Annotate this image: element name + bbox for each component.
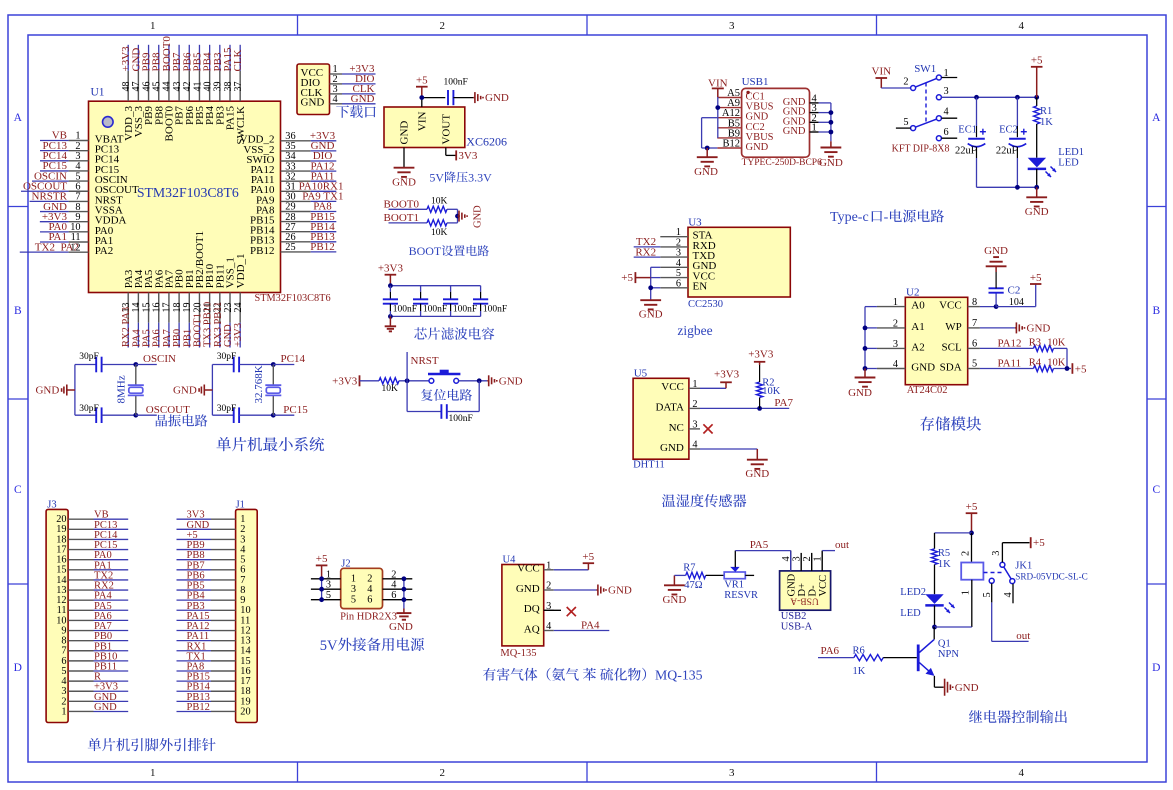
svg-text:zigbee: zigbee bbox=[677, 323, 712, 338]
net TX2 wire (U3) bbox=[634, 246, 661, 248]
U1 pin 44 (BOOT0) top stub + wire + net BOOT0 bbox=[168, 71, 170, 102]
potentiometer VR1 RESVR bbox=[724, 572, 745, 579]
U4 pin 2 (GND) bbox=[544, 589, 554, 591]
svg-text:4: 4 bbox=[1019, 767, 1025, 779]
svg-text:2: 2 bbox=[546, 581, 551, 592]
U1 pin 20 (PB2/BOOT1) bottom stub + wire + net BOOT1 bbox=[198, 293, 200, 323]
svg-text:CC2530: CC2530 bbox=[688, 299, 723, 310]
svg-text:8MHz: 8MHz bbox=[116, 375, 128, 403]
U4 pin 4 (AQ) bbox=[544, 630, 554, 632]
svg-text:VIN: VIN bbox=[872, 65, 892, 77]
svg-text:6: 6 bbox=[367, 595, 372, 606]
svg-text:100nF: 100nF bbox=[423, 305, 447, 315]
capacitor 30pF top (32.768K) bbox=[212, 364, 233, 366]
svg-text:3: 3 bbox=[893, 339, 898, 350]
svg-text:5V: 5V bbox=[429, 171, 444, 185]
U1 pin 42 (PB6) top stub + wire + net PB6 bbox=[188, 71, 190, 102]
svg-text:100nF: 100nF bbox=[449, 414, 473, 424]
U1 pin 21 (PB10) bottom stub + wire + net TX3 PB10 bbox=[209, 293, 211, 323]
svg-text:R1: R1 bbox=[1040, 106, 1052, 117]
capacitor C2 104 bbox=[995, 293, 997, 307]
USB1 pin B5 (CC2) bbox=[717, 127, 741, 129]
svg-text:3: 3 bbox=[791, 556, 802, 561]
svg-text:1: 1 bbox=[150, 20, 156, 32]
U5 pin 4 (GND) bbox=[689, 448, 700, 450]
svg-text:4: 4 bbox=[333, 94, 338, 105]
USB2 pin 1 (VCC) bbox=[821, 551, 823, 571]
svg-text:NPN: NPN bbox=[938, 649, 959, 660]
svg-text:30pF: 30pF bbox=[217, 404, 237, 414]
svg-text:+5: +5 bbox=[966, 501, 978, 513]
SW1 blade 5-4 bbox=[915, 119, 936, 127]
connector J1 body bbox=[236, 509, 258, 722]
resistor 10K (BOOT1) bbox=[427, 220, 447, 226]
U1 pin 24 (VDD_1) bottom stub + wire + net +3V3 bbox=[239, 293, 241, 323]
svg-text:PA12: PA12 bbox=[998, 337, 1022, 349]
svg-text:GND: GND bbox=[639, 309, 663, 321]
net PC14 wire bbox=[273, 364, 294, 366]
svg-text:A1: A1 bbox=[911, 321, 924, 333]
USB1 pin 2 (GND right) bbox=[810, 121, 819, 123]
U4 DQ no-connect X bbox=[544, 609, 561, 611]
svg-text:AT24C02: AT24C02 bbox=[907, 385, 948, 396]
svg-text:R3: R3 bbox=[1029, 337, 1041, 348]
U1 pin 1 (VBAT) left wire + net VB bbox=[40, 140, 69, 142]
USB1 pin 4 (GND right) bbox=[810, 102, 819, 104]
caption crystal circuit bbox=[156, 414, 168, 426]
net RX2 wire (U3) bbox=[634, 256, 661, 258]
USB1 pin A5 (CC1) bbox=[717, 97, 741, 99]
USB1 pin A12 (GND) bbox=[717, 117, 741, 119]
capacitor 30pF top (8MHz) bbox=[75, 364, 96, 366]
svg-text:24: 24 bbox=[233, 303, 244, 313]
svg-text:1: 1 bbox=[812, 123, 817, 134]
caption MCU minimal system bbox=[216, 437, 231, 451]
svg-text:1: 1 bbox=[812, 556, 823, 561]
U1 pin 17 (PA7) bottom stub + wire + net PA7 bbox=[168, 293, 170, 323]
USB2 pin 4 (GND) bbox=[790, 551, 792, 571]
SW1 pin1 stub bbox=[941, 77, 957, 79]
U1 pin 6 (OSCOUT) left wire + net OSCOUT bbox=[21, 190, 69, 192]
svg-text:LED2: LED2 bbox=[900, 587, 926, 598]
U4 VCC to +5 bbox=[554, 569, 589, 571]
svg-text:10K: 10K bbox=[1047, 358, 1066, 369]
svg-text:22uF: 22uF bbox=[996, 145, 1018, 156]
svg-text:GND: GND bbox=[389, 621, 413, 633]
wire coil bottom to collector node bbox=[935, 626, 972, 628]
U1 pin 4 (PC15) left wire + net PC15 bbox=[40, 170, 69, 172]
svg-text:GND: GND bbox=[1027, 323, 1051, 335]
svg-text:+5: +5 bbox=[1033, 537, 1045, 549]
svg-text:+3V3: +3V3 bbox=[378, 263, 404, 275]
svg-text:KFT DIP-8X8: KFT DIP-8X8 bbox=[892, 143, 950, 154]
svg-text:5: 5 bbox=[972, 359, 977, 370]
reset bottom loop with cap bbox=[406, 381, 408, 412]
wire VIN to SW1 pin2 bbox=[881, 87, 910, 89]
svg-text:GND: GND bbox=[787, 573, 798, 596]
resistor 10K (reset pullup) bbox=[379, 378, 399, 384]
svg-text:out: out bbox=[1016, 630, 1030, 642]
svg-text:100nF: 100nF bbox=[393, 305, 417, 315]
svg-text:3: 3 bbox=[729, 767, 735, 779]
U1 pin 14 (PA4) bottom stub + wire + net PA4 bbox=[137, 293, 139, 323]
USB1 pin B12 (GND) bbox=[717, 147, 741, 149]
svg-text:+5: +5 bbox=[1030, 272, 1042, 284]
U1 pin 10 (PA0) left wire + net PA0 bbox=[40, 231, 69, 233]
svg-text:2: 2 bbox=[960, 551, 971, 556]
net PA6 + resistor R6 1K base drive bbox=[818, 657, 854, 659]
svg-text:3V3: 3V3 bbox=[458, 150, 477, 162]
U5 pin 1 (VCC) bbox=[689, 387, 700, 389]
U2 pin 5 SDA + PA11 + R4 bbox=[968, 368, 980, 370]
svg-text:J1: J1 bbox=[236, 499, 245, 510]
svg-text:SCL: SCL bbox=[942, 341, 962, 353]
U2 address pins gnd bus bbox=[864, 307, 866, 369]
svg-text:PB12: PB12 bbox=[187, 702, 210, 713]
wire +5 bus (J2 odd pins) bbox=[321, 579, 323, 600]
relay JK1 blade 3-4 bbox=[1004, 567, 1011, 579]
filter caps bottom rail bbox=[390, 315, 480, 317]
capacitor 100nF #3 bbox=[450, 286, 452, 292]
svg-text:PA7: PA7 bbox=[774, 397, 793, 409]
svg-text:3: 3 bbox=[944, 86, 949, 97]
svg-text:RESVR: RESVR bbox=[724, 590, 758, 601]
svg-text:5: 5 bbox=[982, 592, 993, 597]
svg-text:PB12: PB12 bbox=[310, 241, 334, 253]
earth ground up (C2) bbox=[995, 266, 997, 272]
svg-text:4: 4 bbox=[367, 584, 372, 595]
ic U1 STM32F103C8T6 body bbox=[89, 101, 281, 292]
net label NRST + wire bbox=[406, 352, 408, 381]
U3 EN pin wire bbox=[651, 287, 661, 289]
svg-text:R6: R6 bbox=[853, 645, 865, 656]
U1 pin 5 (OSCIN) left wire + net OSCIN bbox=[32, 180, 69, 182]
wire GND bus (J2 even pins) bbox=[403, 579, 405, 609]
U1 pin 31 (PA10) right wire + net PA10RX1 bbox=[281, 190, 311, 192]
U5 NC pin no-connect X bbox=[703, 424, 712, 433]
power GND left (8MHz) bbox=[67, 389, 75, 391]
earth ground (R7) bbox=[673, 575, 675, 585]
U1 pin 39 (PB3) top stub + wire + net PB3 bbox=[219, 71, 221, 102]
svg-text:4: 4 bbox=[692, 440, 697, 451]
svg-text:USB-A: USB-A bbox=[790, 596, 819, 606]
svg-text:R7: R7 bbox=[683, 562, 695, 573]
U2 pin 1 (A0) bbox=[877, 306, 905, 308]
U1 pin 8 (VSSA) left wire + net GND bbox=[40, 211, 69, 213]
svg-text:MQ-135: MQ-135 bbox=[655, 668, 703, 683]
net PC15 wire bbox=[273, 414, 294, 416]
relay JK1 coil bbox=[971, 533, 973, 563]
svg-text:CLK: CLK bbox=[232, 49, 244, 71]
U1 pin 38 (PA15) top stub + wire + net PA15 bbox=[229, 71, 231, 102]
U3 pin 3 (TXD) bbox=[660, 256, 688, 258]
svg-text:C: C bbox=[1152, 484, 1160, 496]
svg-text:D+: D+ bbox=[797, 583, 808, 597]
U1 pin 3 (PC14) left wire + net PC14 bbox=[40, 160, 69, 162]
svg-text:-: - bbox=[884, 210, 889, 225]
relay JK1 contact pin4 bbox=[1010, 579, 1015, 584]
svg-text:A: A bbox=[14, 112, 23, 124]
crystal 8MHz bbox=[133, 362, 138, 367]
svg-text:U3: U3 bbox=[688, 216, 702, 228]
svg-text:DATA: DATA bbox=[655, 401, 684, 413]
U5 VCC to +3V3 bbox=[700, 387, 726, 389]
U3 pin 5 (VCC) bbox=[660, 277, 688, 279]
U1 pin 26 (PB13) right wire + net PB13 bbox=[281, 241, 311, 243]
svg-text:VR1: VR1 bbox=[724, 579, 744, 590]
svg-text:2: 2 bbox=[893, 318, 898, 329]
connector USB1 TYPEC body bbox=[742, 88, 810, 157]
svg-text:1: 1 bbox=[944, 68, 949, 79]
U1 pin 32 (PA11) right wire + net PA11 bbox=[281, 180, 311, 182]
svg-text:+5: +5 bbox=[1031, 55, 1043, 67]
svg-text:B: B bbox=[1152, 305, 1160, 317]
U1 pin 7 (NRST) left wire + net NRSTR bbox=[30, 200, 69, 202]
svg-text:GND: GND bbox=[911, 361, 935, 373]
earth ground (U3) bbox=[640, 299, 661, 301]
svg-text:5: 5 bbox=[903, 117, 908, 128]
svg-text:GND: GND bbox=[35, 385, 59, 397]
svg-text:BOOT: BOOT bbox=[409, 244, 442, 258]
svg-text:3: 3 bbox=[991, 551, 1002, 556]
caption storage module bbox=[920, 416, 934, 430]
capacitor EC2 22uF bbox=[1016, 97, 1018, 126]
net OSCOUT wire bbox=[136, 414, 157, 416]
USB1 pin 3 (GND right) bbox=[810, 112, 819, 114]
svg-text:10K: 10K bbox=[431, 196, 448, 206]
caption temperature humidity sensor bbox=[662, 494, 675, 507]
svg-text:PB12: PB12 bbox=[250, 245, 274, 257]
svg-text:100nF: 100nF bbox=[483, 305, 507, 315]
caption chip filter capacitors bbox=[414, 327, 427, 339]
svg-text:VCC: VCC bbox=[818, 575, 829, 597]
connector J3 body bbox=[46, 509, 68, 722]
wire +5 node to R5 branch bbox=[935, 532, 972, 534]
svg-text:VDD_1: VDD_1 bbox=[235, 253, 247, 288]
wire GND A12/B12 bbox=[702, 117, 718, 119]
svg-text:GND: GND bbox=[485, 92, 509, 104]
relay JK1 contact pin5 + out bbox=[989, 578, 994, 583]
svg-text:EN: EN bbox=[693, 281, 708, 293]
U4 AQ wire to PA4 bbox=[554, 630, 610, 632]
Q1 emitter to GND bar bbox=[933, 676, 935, 687]
earth ground (USB1 right) bbox=[830, 141, 832, 147]
svg-text:VCC: VCC bbox=[661, 381, 684, 393]
svg-text:25: 25 bbox=[285, 242, 295, 253]
svg-text:GND: GND bbox=[783, 126, 806, 137]
svg-text:B: B bbox=[14, 305, 22, 317]
earth ground (J2) bbox=[403, 609, 405, 614]
wire USB2 pin1 to out bbox=[822, 550, 835, 552]
U1 pin 12 (PA2) left wire + net TX2 PA2 bbox=[20, 251, 69, 253]
U5 pin 3 (NC) bbox=[689, 428, 700, 430]
earth ground (U2) bbox=[864, 369, 866, 378]
U2 pin 7 WP to GND bbox=[968, 327, 980, 329]
U1 pin 48 (VDD_3) top stub + wire + net +3V3 bbox=[127, 71, 129, 102]
svg-text:PA5: PA5 bbox=[750, 539, 769, 551]
svg-text:+5: +5 bbox=[582, 551, 594, 563]
svg-text:GND: GND bbox=[392, 177, 416, 189]
svg-text:3.3V: 3.3V bbox=[468, 171, 492, 185]
power +5 port bbox=[416, 86, 428, 88]
net PA5 wire bbox=[735, 550, 790, 552]
filter caps top rail bbox=[390, 285, 480, 287]
U1 pin 15 (PA5) bottom stub + wire + net PA5 bbox=[148, 293, 150, 323]
svg-text:Type-c: Type-c bbox=[830, 210, 869, 225]
svg-text:A: A bbox=[1152, 112, 1161, 124]
power +5 port (top right) bbox=[1031, 66, 1043, 68]
svg-text:1K: 1K bbox=[1040, 117, 1053, 128]
U1 pin 9 (VDDA) left wire + net +3V3 bbox=[40, 221, 69, 223]
resistor R1 1K bbox=[1036, 97, 1038, 106]
svg-text:U2: U2 bbox=[906, 286, 919, 298]
svg-text:12: 12 bbox=[70, 242, 80, 253]
svg-text:MQ-135: MQ-135 bbox=[500, 648, 536, 659]
svg-text:6: 6 bbox=[944, 127, 949, 138]
relay JK1 linkage dashed bbox=[984, 572, 1004, 574]
resistor 10K (BOOT0) bbox=[427, 206, 447, 212]
led LED2 bbox=[925, 594, 943, 604]
svg-text:1: 1 bbox=[61, 706, 66, 717]
svg-text:47Ω: 47Ω bbox=[684, 580, 703, 591]
wire VIN to VBUS pins bbox=[717, 97, 719, 138]
U1 pin 46 (PB9) top stub + wire + net PB9 bbox=[148, 71, 150, 102]
svg-text:2: 2 bbox=[903, 77, 908, 88]
svg-text:3: 3 bbox=[692, 419, 697, 430]
caption xia-zai-kou (download port) bbox=[336, 105, 349, 117]
svg-text:J3: J3 bbox=[47, 499, 56, 510]
earth ground (USB1 left) bbox=[706, 148, 708, 157]
svg-text:GND: GND bbox=[516, 583, 540, 595]
svg-text:STM32F103C8T6: STM32F103C8T6 bbox=[137, 185, 239, 200]
U1 pin 11 (PA1) left wire + net PA1 bbox=[40, 241, 69, 243]
svg-text:5V: 5V bbox=[320, 638, 338, 654]
U1 pin 27 (PB14) right wire + net PB14 bbox=[281, 231, 311, 233]
power GND (bar) right of cap bbox=[473, 97, 475, 99]
svg-text:3: 3 bbox=[729, 20, 735, 32]
svg-text:7: 7 bbox=[972, 318, 977, 329]
resistor R4 10K bbox=[1034, 365, 1054, 371]
svg-text:8: 8 bbox=[972, 297, 977, 308]
svg-text:U4: U4 bbox=[503, 555, 517, 566]
U1 pin 18 (PB0) bottom stub + wire + net PB0 bbox=[178, 293, 180, 323]
svg-text:+5: +5 bbox=[1075, 363, 1087, 375]
svg-text:1: 1 bbox=[326, 569, 331, 580]
capacitor 100nF (reset) bbox=[440, 404, 442, 419]
svg-text:VCC: VCC bbox=[939, 300, 962, 312]
SW1 pin4 stub bbox=[941, 117, 957, 119]
U1 pin 23 (VSS_1) bottom stub + wire + net GND bbox=[229, 293, 231, 323]
svg-text:PA11: PA11 bbox=[998, 358, 1022, 370]
svg-text:4: 4 bbox=[546, 621, 551, 632]
SW1 blade 2-1 bbox=[915, 78, 936, 87]
svg-text:EC1: EC1 bbox=[958, 125, 977, 136]
svg-text:EC2: EC2 bbox=[999, 125, 1018, 136]
svg-text:1: 1 bbox=[150, 767, 156, 779]
U2 pin 8 VCC node bbox=[968, 306, 980, 308]
SW1 linkage dashed line bbox=[925, 83, 927, 124]
svg-text:PA4: PA4 bbox=[581, 620, 600, 632]
U1 pin 16 (PA6) bottom stub + wire + net PA6 bbox=[158, 293, 160, 323]
svg-text:DQ: DQ bbox=[524, 603, 540, 615]
svg-text:R4: R4 bbox=[1029, 358, 1042, 369]
SW1 pin6 stub bbox=[941, 137, 957, 139]
svg-text:100nF: 100nF bbox=[444, 78, 468, 88]
svg-text:6: 6 bbox=[972, 338, 977, 349]
svg-text:20: 20 bbox=[240, 706, 250, 717]
svg-text:+3V3: +3V3 bbox=[233, 323, 244, 347]
svg-text:NC: NC bbox=[669, 422, 684, 434]
U5 DATA wire to PA7 bbox=[700, 407, 789, 409]
power +5 (U2 VCC) bbox=[996, 306, 1036, 308]
power +5 (relay) bbox=[966, 512, 978, 514]
U5 GND pin wire + earth bbox=[700, 448, 757, 450]
svg-text:10K: 10K bbox=[1047, 337, 1066, 348]
svg-text:VIN: VIN bbox=[416, 111, 428, 131]
svg-text:D: D bbox=[1152, 662, 1160, 674]
led LED1 bbox=[1028, 158, 1046, 168]
svg-text:5: 5 bbox=[351, 595, 356, 606]
svg-text:+5: +5 bbox=[621, 272, 633, 284]
U1 pin 19 (PB1) bottom stub + wire + net PB1 bbox=[188, 293, 190, 323]
svg-text:10K: 10K bbox=[762, 386, 781, 397]
svg-text:10K: 10K bbox=[431, 228, 448, 238]
svg-text:A2: A2 bbox=[911, 341, 924, 353]
power GND left (32.768K) bbox=[204, 389, 212, 391]
svg-text:SW1: SW1 bbox=[914, 63, 936, 75]
svg-text:GND: GND bbox=[660, 442, 684, 454]
svg-text:PC15: PC15 bbox=[283, 404, 308, 416]
U1 pin 2 (PC13) left wire + net PC13 bbox=[40, 150, 69, 152]
svg-text:GND: GND bbox=[984, 245, 1008, 257]
svg-text:R5: R5 bbox=[938, 548, 950, 559]
svg-text:2: 2 bbox=[367, 574, 372, 585]
U2 pin 3 (A2) bbox=[877, 347, 905, 349]
svg-text:2: 2 bbox=[692, 399, 697, 410]
crystal 32.768K bbox=[271, 362, 276, 367]
USB2 pin 3 (D+) bbox=[800, 553, 802, 571]
svg-text:PA6: PA6 bbox=[821, 645, 840, 657]
svg-text:GND: GND bbox=[173, 385, 197, 397]
power +3V3 (R2) bbox=[754, 361, 765, 363]
svg-text:PA2: PA2 bbox=[95, 245, 114, 257]
svg-text:GND: GND bbox=[608, 585, 632, 597]
connector USB2 USB-A body bbox=[780, 571, 831, 610]
svg-text:Pin HDR2X3: Pin HDR2X3 bbox=[340, 612, 397, 623]
svg-text:GND: GND bbox=[694, 166, 718, 178]
earth ground (filter caps) bbox=[389, 316, 391, 326]
wire cap to gnd bbox=[453, 97, 473, 99]
U2 pin 6 SCL + PA12 + R3 bbox=[968, 347, 980, 349]
resistor R7 47 bbox=[674, 574, 685, 576]
svg-text:1: 1 bbox=[692, 379, 697, 390]
caption MCU pin-out headers bbox=[88, 738, 101, 751]
svg-text:4: 4 bbox=[1003, 592, 1014, 597]
svg-text:+3V3: +3V3 bbox=[714, 369, 740, 381]
svg-text:C: C bbox=[14, 484, 22, 496]
wire +3V3 to resistor bbox=[360, 380, 380, 382]
svg-text:J2: J2 bbox=[341, 559, 350, 570]
svg-text:37: 37 bbox=[233, 82, 244, 92]
svg-text:GND: GND bbox=[848, 387, 872, 399]
U2 pin 2 (A1) bbox=[877, 327, 905, 329]
U3 pin 4 (GND) bbox=[660, 266, 688, 268]
svg-text:1K: 1K bbox=[853, 666, 866, 677]
U1 pin 47 (VSS_3) top stub + wire + net GND bbox=[137, 71, 139, 102]
USB1 pin A9 (VBUS) bbox=[717, 107, 741, 109]
svg-text:SRD-05VDC-SL-C: SRD-05VDC-SL-C bbox=[1015, 571, 1088, 581]
svg-text:30pF: 30pF bbox=[79, 404, 99, 414]
